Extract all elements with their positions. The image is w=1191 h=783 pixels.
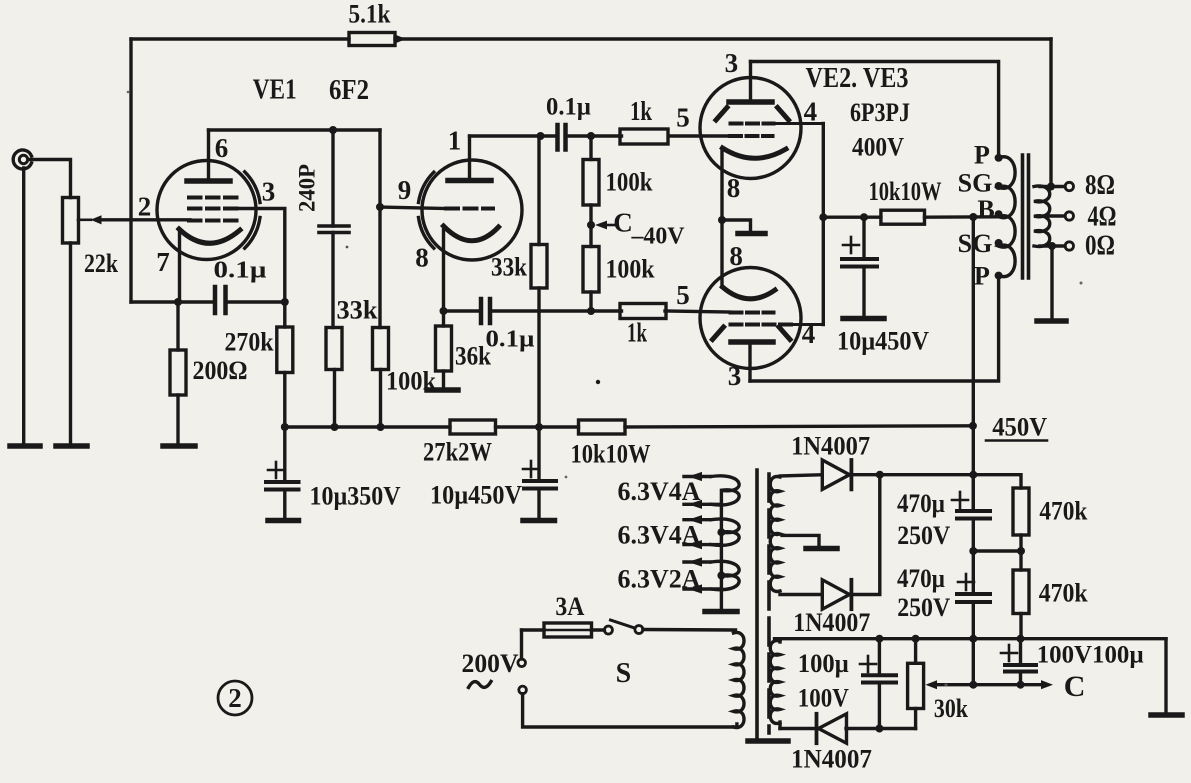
ground 200ohm bbox=[163, 443, 195, 449]
node SG top bbox=[995, 182, 1003, 190]
terminal 200V upper bbox=[518, 659, 526, 667]
capacitor 10u350V lead bbox=[283, 427, 286, 482]
wire 0ohm tap bbox=[1040, 244, 1065, 247]
paper speck c bbox=[127, 91, 130, 94]
svg-text:470µ: 470µ bbox=[897, 564, 945, 593]
wire 200ohm ground lead bbox=[176, 395, 179, 446]
figure number circle 2 bbox=[218, 681, 252, 715]
wire B+ vertical bottom bbox=[972, 639, 975, 685]
svg-text:9: 9 bbox=[398, 175, 412, 205]
wire 100k to bus bbox=[379, 370, 382, 428]
arrow C output bbox=[1041, 680, 1053, 689]
wire fuse left bbox=[522, 628, 545, 631]
label 100V100u bbox=[1037, 642, 1144, 669]
svg-text:8: 8 bbox=[415, 243, 429, 273]
node 240P tap bbox=[329, 126, 337, 134]
label VE1 bbox=[253, 75, 297, 106]
svg-text:6.3V4A: 6.3V4A bbox=[618, 477, 701, 506]
wire D2 riser bbox=[850, 475, 879, 595]
ground core bbox=[748, 738, 788, 744]
tube VE2 anode (pin 3) bbox=[729, 99, 772, 105]
svg-text:1N4007: 1N4007 bbox=[791, 432, 870, 461]
svg-text:470µ: 470µ bbox=[897, 489, 945, 518]
svg-text:10k10W: 10k10W bbox=[869, 177, 942, 206]
label 470k first bbox=[1039, 496, 1087, 525]
resistor 100k upper lead bbox=[589, 136, 592, 160]
tube VE1b cathode bbox=[444, 226, 499, 241]
label pin 4 lower bbox=[802, 319, 816, 349]
capacitor 470u second bbox=[957, 594, 990, 602]
wire 100k junction bbox=[589, 205, 592, 247]
wire 470k top lead bbox=[973, 475, 1021, 488]
label pin 8 bbox=[415, 243, 429, 273]
wire VE1 pin3 to cap node bbox=[235, 209, 285, 303]
wire divider mid bbox=[973, 549, 1021, 552]
potentiometer 22k bbox=[63, 198, 79, 244]
wire wiper to C bbox=[935, 683, 1041, 686]
label 3A bbox=[555, 592, 584, 621]
wire 33k second to bus bbox=[537, 288, 540, 427]
svg-text:33k: 33k bbox=[491, 253, 527, 282]
terminal 8ohm bbox=[1065, 182, 1073, 190]
svg-text:30k: 30k bbox=[934, 694, 968, 723]
wire cathode node bbox=[131, 300, 215, 303]
label pin 8 ve2 bbox=[727, 173, 741, 203]
terminal 4ohm bbox=[1065, 212, 1073, 220]
wire VE3 plate to P bottom bbox=[750, 280, 999, 381]
node cathode ground tap bbox=[718, 216, 726, 224]
node mid divider left bbox=[969, 547, 977, 555]
wire mains bottom bbox=[523, 694, 737, 727]
wire switch to primary bbox=[643, 628, 736, 632]
pot wiper arrow bbox=[78, 215, 102, 224]
svg-text:6.3V4A: 6.3V4A bbox=[618, 521, 701, 550]
svg-text:270k: 270k bbox=[225, 328, 274, 357]
heater winding 1 bbox=[684, 476, 739, 505]
wire bias winding bottom stub bbox=[778, 722, 781, 729]
label C output bbox=[1064, 670, 1086, 703]
plus 10u350V bbox=[268, 462, 284, 478]
paper speck d bbox=[944, 683, 947, 686]
node pin 9 branch bbox=[376, 203, 384, 211]
label 1k lower bbox=[627, 318, 647, 348]
svg-text:27k2W: 27k2W bbox=[423, 438, 492, 467]
wire bias winding top stub bbox=[778, 639, 781, 642]
paper speck b bbox=[1080, 282, 1083, 285]
terminal 200V lower bbox=[519, 686, 527, 694]
switch S blade bbox=[611, 620, 635, 628]
label -40V bbox=[631, 224, 686, 250]
label S bbox=[616, 658, 632, 689]
label 33k second bbox=[491, 253, 527, 282]
label pin 5 lower bbox=[676, 280, 690, 310]
resistor 36k bbox=[436, 326, 452, 371]
wire pin 9 bbox=[380, 207, 446, 209]
label pin 1 bbox=[448, 126, 462, 156]
svg-text:100µ: 100µ bbox=[798, 649, 849, 678]
resistor 5.1k bbox=[349, 33, 395, 46]
capacitor 10u450V left lead bbox=[537, 427, 540, 481]
resistor 27k2W bbox=[450, 420, 496, 434]
plus 10u450V left bbox=[523, 461, 539, 477]
label 100k plate bbox=[386, 367, 436, 396]
svg-text:4Ω: 4Ω bbox=[1088, 201, 1117, 233]
plus 10u450V right bbox=[843, 237, 859, 253]
svg-text:0Ω: 0Ω bbox=[1085, 229, 1115, 261]
resistor 470k second bbox=[1013, 570, 1029, 614]
label C node bbox=[613, 208, 633, 238]
resistor 30k lead bbox=[914, 639, 917, 664]
label 0ohm bbox=[1085, 229, 1115, 261]
heater winding 1 arrows bbox=[688, 472, 702, 509]
HV winding bbox=[770, 477, 780, 592]
wire cathode ground stub bbox=[722, 220, 751, 233]
label 33k first bbox=[337, 296, 379, 325]
wire between caps bbox=[972, 519, 975, 595]
svg-text:200Ω: 200Ω bbox=[193, 356, 248, 385]
svg-text:0.1µ: 0.1µ bbox=[546, 94, 591, 121]
label 450V underline bbox=[986, 439, 1047, 442]
speck bbox=[596, 380, 600, 384]
label 450V bbox=[992, 413, 1047, 442]
wire 0ohm ground lead bbox=[1050, 246, 1053, 320]
wire cap2 to rail bbox=[972, 602, 975, 639]
ground heater bbox=[705, 609, 737, 615]
node P top bbox=[995, 154, 1003, 162]
node 100u bottom bbox=[875, 725, 883, 733]
ground pot bbox=[56, 443, 87, 449]
tube VE1 grid row 3 bbox=[189, 219, 237, 223]
resistor 200ohm bbox=[170, 350, 186, 395]
svg-text:100k: 100k bbox=[606, 255, 655, 284]
wire 10k to B bbox=[925, 215, 999, 219]
svg-text:3: 3 bbox=[725, 48, 739, 78]
tube VE2 pin3 stem bbox=[749, 62, 752, 101]
svg-text:400V: 400V bbox=[852, 133, 904, 162]
svg-text:3A: 3A bbox=[555, 592, 584, 621]
terminal 0ohm bbox=[1065, 242, 1073, 250]
capacitor 470u first lead bbox=[972, 475, 975, 511]
plus 100u bbox=[860, 656, 876, 672]
capacitor 10u450V left bbox=[524, 481, 556, 489]
label 4ohm bbox=[1088, 201, 1117, 233]
resistor 270k bbox=[277, 327, 293, 373]
wire to 200V terminal bbox=[520, 630, 523, 659]
capacitor 10u450V right lower lead bbox=[862, 267, 865, 318]
ground speaker bbox=[1037, 318, 1066, 324]
resistor 36k lead bbox=[442, 311, 445, 326]
label 30k bbox=[934, 694, 968, 723]
tube VE1 grid row 2 bbox=[189, 207, 237, 211]
svg-text:470k: 470k bbox=[1039, 496, 1087, 525]
label pin 3 bbox=[262, 177, 276, 207]
wire 33k to bus bbox=[333, 370, 336, 428]
label 1k upper bbox=[630, 96, 652, 126]
svg-text:1N4007: 1N4007 bbox=[793, 608, 870, 637]
heater winding 2 arrows bbox=[688, 515, 702, 549]
label 400V bbox=[852, 133, 904, 162]
svg-text:C: C bbox=[613, 208, 633, 238]
wire HV top to D1 bbox=[780, 475, 822, 477]
wire 1k to VE3 grid bbox=[665, 311, 730, 312]
label 6F2 bbox=[329, 75, 369, 106]
svg-text:5: 5 bbox=[676, 103, 690, 133]
wire jack ground lead bbox=[22, 168, 25, 446]
label 0.1u cathode bbox=[214, 258, 267, 284]
capacitor 100V100u lower lead bbox=[1019, 672, 1022, 685]
power transformer core dashed bar bbox=[767, 474, 771, 733]
node P bottom bbox=[995, 272, 1003, 280]
capacitor 10u450V right bbox=[842, 259, 877, 267]
svg-text:200V: 200V bbox=[462, 649, 519, 678]
node SG bottom bbox=[995, 239, 1003, 247]
diode D3 1N4007 bbox=[817, 714, 847, 743]
wire HV centre tap bbox=[782, 535, 819, 548]
svg-text:5.1k: 5.1k bbox=[349, 0, 391, 29]
node 100k chain top bbox=[587, 132, 595, 140]
diode D1 1N4007 bbox=[822, 460, 851, 489]
wire wiper to VE1 grid bbox=[99, 218, 190, 221]
svg-text:36k: 36k bbox=[455, 342, 491, 371]
capacitor 100V100u bbox=[1005, 665, 1036, 672]
tube VE1b envelope bbox=[422, 160, 522, 260]
svg-text:240P: 240P bbox=[295, 164, 320, 212]
label VE2. VE3 bbox=[806, 63, 909, 94]
capacitor 240P bbox=[319, 226, 349, 233]
label 1N4007 bottom bbox=[791, 745, 872, 774]
label pin 3 upper bbox=[725, 48, 739, 78]
label pin 2 bbox=[138, 192, 152, 222]
wire feedback top left segment bbox=[131, 37, 349, 40]
tube VE2 screen grid bbox=[731, 122, 824, 126]
wire B+ vertical upper bbox=[972, 217, 975, 426]
plus 100V100u bbox=[1001, 645, 1017, 661]
wire 100k lower to node bbox=[589, 292, 592, 311]
svg-text:100V100µ: 100V100µ bbox=[1037, 642, 1144, 669]
node rail 100V100u bbox=[1017, 635, 1025, 643]
switch S throw bbox=[635, 626, 643, 634]
resistor 10k10W upper bbox=[881, 210, 925, 224]
label 240P bbox=[295, 164, 320, 212]
wire bias rail bbox=[775, 637, 1167, 640]
wire bias bottom seg1 bbox=[780, 727, 818, 730]
switch S pole bbox=[604, 626, 612, 634]
svg-text:7: 7 bbox=[156, 247, 170, 277]
wire pot ground lead bbox=[69, 243, 72, 446]
resistor 100k upper bbox=[583, 160, 599, 206]
label 22k bbox=[84, 249, 118, 278]
wire 470k first bottom bbox=[1019, 535, 1022, 551]
svg-text:1: 1 bbox=[448, 126, 462, 156]
label 200V bbox=[462, 649, 519, 678]
wire 1k to VE2 grid bbox=[669, 134, 730, 137]
resistor 100k plate bbox=[373, 328, 389, 370]
node B bbox=[995, 210, 1003, 218]
tube VE3 anode (pin 3) bbox=[731, 339, 773, 345]
svg-text:1k: 1k bbox=[630, 96, 652, 126]
tube VE1b pin 1 stem bbox=[468, 136, 471, 178]
ground 10u350V bbox=[268, 518, 299, 524]
node cap 10u450 tap bbox=[860, 213, 868, 221]
arrow C node bbox=[595, 221, 617, 230]
wire arrowhead right of 5.1k bbox=[395, 35, 406, 44]
wire 36k ground lead bbox=[442, 371, 445, 390]
svg-text:8: 8 bbox=[727, 173, 741, 203]
node bus 100k bbox=[377, 423, 385, 431]
wire rail right drop bbox=[1164, 639, 1167, 714]
capacitor 0.1u coupling bottom bbox=[481, 299, 490, 323]
label P top bbox=[974, 141, 990, 170]
node rail B+ bbox=[969, 471, 977, 479]
label 6.3V4A second bbox=[618, 521, 701, 550]
resistor 1k upper bbox=[620, 129, 668, 144]
capacitor 100u bbox=[863, 675, 896, 682]
label pin 6 bbox=[215, 133, 229, 163]
label 470u second bbox=[897, 564, 945, 593]
node heater ct 2 bbox=[717, 572, 725, 580]
svg-text:VE1: VE1 bbox=[253, 75, 297, 106]
tube VE3 screen grid bbox=[731, 323, 824, 327]
heater winding 3 bbox=[684, 561, 739, 589]
svg-text:3: 3 bbox=[262, 177, 276, 207]
transformer core bbox=[1023, 155, 1029, 278]
svg-text:250V: 250V bbox=[897, 521, 950, 550]
node cathode vert bbox=[440, 307, 448, 315]
label 250V first bbox=[897, 521, 950, 550]
svg-text:6P3PJ: 6P3PJ bbox=[850, 98, 910, 127]
svg-text:VE2. VE3: VE2. VE3 bbox=[806, 63, 909, 94]
node B branch bbox=[969, 213, 977, 221]
wire bus seg1 bbox=[285, 425, 450, 428]
tube VE1 envelope bbox=[157, 161, 256, 260]
svg-text:6.3V2A: 6.3V2A bbox=[618, 565, 701, 594]
resistor 270k lead bbox=[283, 302, 286, 327]
node bus 33k bbox=[331, 423, 339, 431]
tube VE2 beam plate left bbox=[716, 108, 727, 121]
heater winding 2 bbox=[684, 519, 739, 545]
svg-text:P: P bbox=[974, 261, 990, 290]
tube VE3 control grid bbox=[731, 311, 774, 315]
label 1N4007 mid bbox=[793, 608, 870, 637]
tube VE1 cathode bbox=[179, 229, 240, 243]
mains primary winding bbox=[734, 632, 745, 727]
svg-text:10µ450V: 10µ450V bbox=[430, 481, 522, 510]
label 6.3V4A first bbox=[618, 477, 701, 506]
svg-text:4: 4 bbox=[802, 319, 816, 349]
svg-text:SG: SG bbox=[958, 169, 993, 198]
svg-text:2: 2 bbox=[228, 683, 242, 713]
diode D2 1N4007 bbox=[822, 580, 851, 609]
plus 470u second bbox=[958, 574, 974, 590]
node 33k tap bbox=[537, 132, 545, 140]
capacitor 470u first bbox=[957, 511, 990, 519]
resistor 33k second bbox=[531, 245, 547, 289]
wire screens tie bbox=[822, 124, 825, 325]
label pin 9 bbox=[398, 175, 412, 205]
wire B+ vertical mid bbox=[972, 426, 975, 511]
svg-text:10µ350V: 10µ350V bbox=[310, 482, 401, 511]
wire 270k to bus bbox=[283, 373, 286, 428]
ground 10u450V right bbox=[843, 316, 884, 322]
ground far right bbox=[1151, 712, 1182, 718]
capacitor 10u450V right lead bbox=[862, 217, 865, 259]
label pin 5 upper bbox=[676, 103, 690, 133]
svg-text:100k: 100k bbox=[606, 168, 653, 197]
ground jack bbox=[10, 443, 40, 449]
capacitor 100u lead bbox=[878, 639, 881, 676]
label 470k second bbox=[1039, 579, 1088, 608]
resistor 100k lower bbox=[583, 247, 599, 293]
tube VE3 envelope bbox=[700, 268, 801, 369]
wire pin1 to cap bbox=[470, 134, 558, 137]
svg-text:S: S bbox=[616, 658, 632, 689]
tube VE1b cathode lead (pin 8) bbox=[442, 230, 445, 311]
label 6.3V2A bbox=[618, 565, 701, 594]
label 200ohm bbox=[193, 356, 248, 385]
resistor 30k bbox=[908, 663, 924, 708]
label 1N4007 top bbox=[791, 432, 870, 461]
node 100k chain bottom bbox=[587, 307, 595, 315]
node wiper cap bbox=[1017, 681, 1025, 689]
svg-text:100V: 100V bbox=[798, 683, 849, 712]
ground 10u450V left bbox=[523, 518, 555, 524]
tube VE3 cathode bbox=[723, 287, 776, 299]
capacitor 0.1u cathode bbox=[215, 287, 226, 313]
svg-text:1k: 1k bbox=[627, 318, 647, 348]
label 5.1k bbox=[349, 0, 391, 29]
label 27k2W bbox=[423, 438, 492, 467]
wire cap to 1k lower bbox=[490, 309, 622, 312]
wire plate column bbox=[378, 130, 381, 328]
label B bbox=[977, 195, 994, 224]
ground power cathodes bbox=[738, 231, 765, 237]
svg-text:6: 6 bbox=[215, 133, 229, 163]
wire 470k second top bbox=[1019, 551, 1022, 570]
label pin 8 ve3 bbox=[729, 241, 743, 271]
node 0ohm ground tap bbox=[1048, 242, 1056, 250]
capacitor 240P bottom lead bbox=[331, 233, 334, 328]
wire fuse to switch bbox=[592, 628, 605, 631]
capacitor 0.1u coupling top bbox=[558, 125, 566, 150]
transformer primary winding bbox=[999, 157, 1016, 277]
node wiper main bbox=[969, 681, 977, 689]
tube VE1 anode (pin 6) bbox=[187, 178, 230, 184]
label 10u450V right bbox=[837, 327, 929, 356]
ground HV centre tap bbox=[806, 546, 837, 552]
fuse 3A bbox=[544, 623, 592, 637]
label 100V bbox=[798, 683, 849, 712]
wire HV bottom to D2 bbox=[780, 591, 822, 595]
node rail 100u bbox=[875, 635, 883, 643]
label pin 4 upper bbox=[804, 97, 818, 127]
svg-text:10k10W: 10k10W bbox=[571, 440, 651, 469]
node cathode junction bbox=[174, 298, 182, 306]
svg-text:450V: 450V bbox=[992, 413, 1047, 442]
wire bias bottom seg2 bbox=[846, 727, 916, 730]
label P bottom bbox=[974, 261, 990, 290]
wire VE1 plate row bbox=[209, 128, 381, 131]
node C bias tap bbox=[587, 221, 595, 229]
label 470u first bbox=[897, 489, 945, 518]
input jack bbox=[13, 150, 31, 169]
wire 470k second bottom bbox=[1019, 614, 1022, 639]
label 100k upper bbox=[606, 168, 653, 197]
capacitor 100u lower lead bbox=[878, 683, 881, 729]
node feedback tap bbox=[1047, 183, 1055, 191]
paper speck e bbox=[565, 476, 568, 479]
wire VE2 plate to P top bbox=[751, 62, 999, 154]
resistor 470k first bbox=[1013, 488, 1029, 535]
